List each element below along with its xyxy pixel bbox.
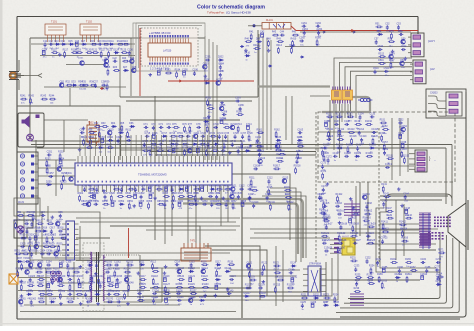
svg-text:R1510: R1510 <box>400 149 408 151</box>
wire IF bus 4 <box>216 45 218 160</box>
svg-text:C206: C206 <box>218 71 224 73</box>
svg-text:R243: R243 <box>41 96 47 98</box>
resistor R911 <box>47 223 54 225</box>
wire lower mid drop2 <box>282 250 284 302</box>
capacitor C186 <box>398 269 401 274</box>
svg-text:C13b25: C13b25 <box>322 240 331 242</box>
svg-text:C201: C201 <box>205 57 211 59</box>
resistor R516 <box>378 63 385 65</box>
ground <box>126 302 130 306</box>
svg-text:C845: C845 <box>236 193 242 195</box>
svg-text:R837: R837 <box>178 193 184 195</box>
svg-text:C74: C74 <box>166 124 171 126</box>
resistor R13b19 <box>352 225 354 232</box>
svg-text:R1511: R1511 <box>386 155 393 157</box>
diode D814 <box>178 188 184 190</box>
delay line DL101 <box>248 20 291 29</box>
svg-text:C1615: C1615 <box>295 158 303 160</box>
resistor R118 <box>228 264 235 266</box>
resistor R1322 <box>336 147 343 149</box>
svg-text:T471: T471 <box>190 240 196 243</box>
svg-text:}AV: }AV <box>430 67 435 71</box>
svg-text:C1140: C1140 <box>227 290 234 292</box>
capacitor C520 <box>384 70 389 73</box>
capacitor C226 <box>311 303 314 307</box>
svg-text:C135: C135 <box>370 113 376 115</box>
svg-text:R1141: R1141 <box>137 297 144 299</box>
svg-text:C750: C750 <box>196 147 202 149</box>
resistor R1125 <box>139 286 146 288</box>
capacitor C1212 <box>291 278 294 282</box>
resistor R1115 <box>216 270 218 277</box>
resistor R743 <box>142 150 149 152</box>
svg-text:R839: R839 <box>193 193 199 195</box>
svg-text:R1015: R1015 <box>35 269 43 271</box>
svg-text:C1321: C1321 <box>323 145 331 147</box>
wire af rail <box>76 237 110 239</box>
svg-text:R133: R133 <box>347 113 353 115</box>
wire ss bus2 <box>146 229 236 231</box>
svg-text:C1030: C1030 <box>67 276 75 278</box>
resistor R48 <box>267 40 269 47</box>
capacitor C1068 <box>86 300 91 303</box>
svg-text:R853: R853 <box>127 201 133 203</box>
wire east west <box>355 186 357 236</box>
resistor R412 <box>253 48 260 50</box>
resistor R236 <box>367 277 374 279</box>
ground <box>207 115 211 119</box>
capacitor C13b1 <box>318 195 321 200</box>
resistor R243 <box>41 98 48 100</box>
capacitor C56 <box>399 33 404 36</box>
capacitor C724 <box>218 135 221 140</box>
capacitor C914 <box>25 229 28 234</box>
capacitor C1034 <box>107 278 110 282</box>
section dashed box SMPS <box>83 243 104 311</box>
resistor R252 <box>59 153 61 160</box>
svg-text:R189: R189 <box>377 274 383 276</box>
capacitor C725 <box>224 135 227 140</box>
svg-text:R1031: R1031 <box>77 276 85 278</box>
wire rgb v1 <box>391 118 393 180</box>
svg-text:C841: C841 <box>208 193 214 195</box>
diode D64 <box>111 125 117 127</box>
svg-text:D756: D756 <box>245 147 251 149</box>
wire right mid drop2 <box>367 182 369 240</box>
svg-text:C510: C510 <box>378 46 384 48</box>
capacitor C251 <box>47 153 52 156</box>
svg-text:C37: C37 <box>93 82 98 84</box>
wire supply rail <box>110 226 200 260</box>
svg-text:R13b22: R13b22 <box>337 233 346 235</box>
svg-text:Q514: Q514 <box>389 53 395 55</box>
svg-text:D1050: D1050 <box>26 291 34 293</box>
capacitor C196 <box>193 71 196 76</box>
svg-text:Q103: Q103 <box>38 262 44 264</box>
resistor R1318 <box>351 138 353 145</box>
transistor Q102 <box>104 63 108 67</box>
svg-text:C96: C96 <box>58 212 63 214</box>
resistor R1012 <box>126 264 133 266</box>
svg-text:C11: C11 <box>43 41 48 43</box>
wire delay bus 4 <box>270 40 272 150</box>
resistor R850 <box>102 203 109 205</box>
svg-text:R235: R235 <box>355 274 361 276</box>
resistor R614 <box>90 139 92 146</box>
capacitor C134 <box>359 115 362 120</box>
svg-text:C1026: C1026 <box>28 276 36 278</box>
resistor R612 <box>127 131 129 138</box>
op-amp U1 jungle IC TDA8361 <box>75 156 232 192</box>
svg-text:R271: R271 <box>438 250 444 252</box>
svg-text:R43: R43 <box>272 32 277 34</box>
wire kb bus 2 <box>17 245 60 247</box>
resistor R125 <box>248 271 250 278</box>
svg-text:R48: R48 <box>266 38 271 40</box>
transistor Q1112 <box>177 269 181 273</box>
capacitor C13b8 <box>365 205 368 210</box>
svg-text:R1617: R1617 <box>273 166 281 168</box>
resistor R910 <box>36 223 43 225</box>
svg-text:C71: C71 <box>143 124 148 126</box>
svg-text:R1811: R1811 <box>405 274 412 276</box>
ground <box>79 302 83 306</box>
svg-text:R1512: R1512 <box>402 155 410 157</box>
resistor R1612 <box>297 152 299 159</box>
resistor R13b2 <box>337 195 339 202</box>
capacitor C88 <box>134 187 137 192</box>
ground <box>204 74 208 78</box>
wire flyback top <box>380 195 448 197</box>
U101 top pin labels <box>149 35 189 37</box>
resistor R143 <box>383 196 390 198</box>
resistor R51 <box>375 26 382 28</box>
svg-text:R1412: R1412 <box>399 222 407 224</box>
capacitor C512 <box>401 48 406 51</box>
resistor R139 <box>355 123 362 125</box>
svg-text:D1064: D1064 <box>49 298 57 300</box>
capacitor C1140 <box>227 292 232 295</box>
capacitor C67 <box>80 131 85 134</box>
section box video output <box>318 112 455 182</box>
section box audio stage <box>42 212 100 258</box>
resistor R110 <box>103 43 110 45</box>
resistor R211 <box>250 179 252 186</box>
wire top bus drop to CN201 <box>417 17 419 35</box>
diode D611 <box>118 132 124 134</box>
wire chroma bus 1 <box>150 151 316 153</box>
resistor R46 <box>245 41 252 43</box>
resistor R622 <box>107 147 114 149</box>
svg-text:C822: C822 <box>239 186 245 188</box>
svg-text:C860: C860 <box>177 201 183 203</box>
ground <box>352 206 356 210</box>
capacitor C1610 <box>258 153 261 158</box>
resistor R928 <box>43 246 50 248</box>
svg-text:D15: D15 <box>68 41 73 43</box>
svg-text:D13: D13 <box>54 41 59 43</box>
svg-text:D852: D852 <box>119 201 125 203</box>
resistor R36 <box>90 84 97 86</box>
capacitor C715 <box>145 135 150 138</box>
ground <box>262 280 266 284</box>
svg-text:R1128: R1128 <box>176 284 183 286</box>
capacitor C737 <box>207 142 210 147</box>
resistor R931 <box>15 253 22 255</box>
capacitor C842 <box>215 195 218 200</box>
svg-text:C99: C99 <box>30 220 35 222</box>
capacitor C923 <box>51 236 54 241</box>
resistor R825 <box>88 196 95 198</box>
wire mid h238 <box>250 237 330 239</box>
ground <box>20 294 24 298</box>
connector J1 AV jack panel <box>17 152 38 204</box>
resistor R730 <box>150 143 157 145</box>
svg-text:R1618: R1618 <box>294 166 302 168</box>
capacitor C1119 <box>163 278 166 282</box>
red arrow agc <box>100 88 104 90</box>
svg-text:R1042: R1042 <box>68 282 76 284</box>
wire IF bus 3 <box>212 42 214 160</box>
capacitor C2110 <box>252 204 255 209</box>
wire right frame bus <box>340 92 466 317</box>
svg-text:R91: R91 <box>17 212 22 214</box>
resistor R274 <box>437 276 444 278</box>
svg-text:R728: R728 <box>247 133 253 135</box>
wire chroma line <box>285 46 411 48</box>
wire kb bus 3 <box>20 237 64 239</box>
svg-text:C1121: C1121 <box>188 276 195 278</box>
diode D165 <box>276 139 282 141</box>
wire IC top pin stubs <box>80 135 228 156</box>
resistor R215 <box>268 188 270 195</box>
svg-text:C265: C265 <box>299 38 305 40</box>
capacitor C137 <box>334 123 339 126</box>
transistor Q821 <box>231 187 235 191</box>
svg-text:C218: C218 <box>265 194 271 196</box>
wire RGB line 3 <box>345 67 412 118</box>
svg-text:R125: R125 <box>121 49 127 51</box>
svg-text:R281: R281 <box>205 98 211 100</box>
ground <box>249 144 253 148</box>
section dotted audio <box>60 254 140 256</box>
wire bridge out <box>61 282 90 284</box>
svg-text:R1027: R1027 <box>37 276 45 278</box>
svg-text:R828: R828 <box>109 193 115 195</box>
capacitor C1134 <box>152 292 157 295</box>
svg-text:C217: C217 <box>248 194 254 196</box>
capacitor C618 <box>126 139 131 142</box>
svg-text:C519: C519 <box>373 68 379 70</box>
resistor R1135 <box>163 293 170 295</box>
svg-text:R711: R711 <box>223 124 229 126</box>
svg-text:C181: C181 <box>375 259 381 261</box>
resistor R68 <box>88 132 95 134</box>
resistor R859 <box>172 202 174 209</box>
resistor R178 <box>323 202 325 209</box>
capacitor C1143 <box>165 298 168 302</box>
wire lower mid drop <box>275 246 277 306</box>
svg-text:C272: C272 <box>436 259 442 261</box>
resistor R224 <box>334 296 336 303</box>
svg-text:C1142: C1142 <box>152 297 159 299</box>
transistor Q101 <box>80 61 84 65</box>
ground <box>338 221 342 225</box>
transistor Q208 <box>216 81 220 85</box>
red wire video signal <box>296 30 418 32</box>
svg-text:C1144: C1144 <box>177 297 184 299</box>
svg-text:R224: R224 <box>333 295 339 297</box>
svg-text:Q1061: Q1061 <box>19 298 27 300</box>
wire right mid drop <box>359 182 361 236</box>
transformer T901 SMPS <box>91 252 105 302</box>
svg-text:R211: R211 <box>249 178 255 180</box>
svg-text:R219: R219 <box>285 194 291 196</box>
wire lower nest 4 <box>205 246 260 300</box>
svg-text:C1327: C1327 <box>333 153 341 155</box>
ground <box>164 265 168 269</box>
svg-text:R13b19: R13b19 <box>351 223 360 225</box>
svg-text:R18: R18 <box>90 41 95 43</box>
capacitor C19 <box>98 43 103 46</box>
antenna socket ANT1 <box>9 60 42 90</box>
diode D117 <box>216 264 222 266</box>
svg-text:C173: C173 <box>321 163 327 165</box>
capacitor stack C905 <box>350 294 364 305</box>
svg-text:R859: R859 <box>171 201 177 203</box>
svg-text:R26: R26 <box>113 67 118 69</box>
resistor R284 <box>207 108 214 110</box>
svg-text:C251: C251 <box>47 152 53 154</box>
capacitor C917 <box>50 229 53 234</box>
svg-text:R39: R39 <box>105 82 110 84</box>
svg-text:R931: R931 <box>14 250 20 252</box>
capacitor C810 <box>148 187 151 191</box>
capacitor C1619 <box>257 149 262 152</box>
resistor R1052 <box>46 293 53 295</box>
diode D732 <box>169 143 175 145</box>
svg-text:R1813: R1813 <box>380 280 388 282</box>
svg-text:R118: R118 <box>228 261 234 263</box>
svg-text:C145: C145 <box>382 200 388 202</box>
svg-text:C13b6: C13b6 <box>335 203 343 205</box>
svg-text:C109: C109 <box>94 262 100 264</box>
svg-text:Q848: Q848 <box>87 201 93 203</box>
resistor R847 <box>81 203 88 205</box>
resistor R281 <box>207 99 209 106</box>
capacitor C163 <box>298 131 303 134</box>
wire delay bus 3 <box>266 38 268 150</box>
capacitor C53 <box>397 25 400 30</box>
diode D1123 <box>215 278 221 280</box>
svg-text:R1066: R1066 <box>67 298 75 300</box>
wire top right link <box>310 95 330 97</box>
capacitor C148 <box>405 209 408 213</box>
resistor R92 <box>27 215 34 217</box>
svg-text:R174: R174 <box>321 171 327 173</box>
svg-text:C933: C933 <box>30 250 36 252</box>
diode D47 <box>256 40 262 42</box>
speaker SP1 and headphone jack <box>18 113 44 147</box>
resistor R85 <box>113 188 120 190</box>
svg-text:C1710: C1710 <box>323 216 331 218</box>
op-amp U101 IF IC <box>148 39 191 62</box>
capacitor C731 <box>159 143 164 146</box>
resistor R828 <box>110 195 112 202</box>
section dashed box U101 <box>141 28 198 66</box>
svg-text:R1070: R1070 <box>106 298 114 300</box>
resistor R219 <box>285 196 292 198</box>
svg-text:R1060: R1060 <box>123 291 131 293</box>
svg-text:R231: R231 <box>350 258 356 260</box>
svg-text:C136: C136 <box>324 121 330 123</box>
svg-text:R1023: R1023 <box>113 269 121 271</box>
capacitor C1035 <box>116 278 119 283</box>
op-amp U301 chroma amp (orange) <box>332 87 353 104</box>
ground <box>79 265 83 269</box>
capacitor C177 <box>319 196 322 201</box>
svg-text:D207: D207 <box>204 80 210 82</box>
resistor R13b20 <box>368 226 375 228</box>
capacitor C13b15 <box>349 219 352 223</box>
wire CRT return loop 3 <box>340 238 453 308</box>
diode D1329 <box>354 155 360 157</box>
svg-text:R87: R87 <box>127 186 132 188</box>
resistor R187 <box>410 269 417 271</box>
svg-text:R1129: R1129 <box>188 284 195 286</box>
svg-text:DL101: DL101 <box>266 20 273 22</box>
diode D1050 <box>27 293 33 295</box>
wire ss bus <box>150 225 240 227</box>
ground <box>19 280 23 284</box>
resistor R1031 <box>78 278 80 285</box>
red wire IF section left <box>139 28 141 96</box>
svg-text:C283: C283 <box>235 98 241 100</box>
svg-text:R1614: R1614 <box>276 158 284 160</box>
svg-text:C188: C188 <box>425 267 431 269</box>
svg-text:R1127: R1127 <box>163 284 170 286</box>
ground <box>200 196 204 200</box>
svg-text:R77: R77 <box>188 124 193 126</box>
capacitor C201 <box>205 59 210 62</box>
red wire standby <box>128 228 130 258</box>
svg-text:C1020: C1020 <box>85 269 93 271</box>
svg-text:R45: R45 <box>292 32 297 34</box>
resistor R926 <box>29 245 31 252</box>
wire if box v1 <box>135 23 137 70</box>
svg-text:R178: R178 <box>322 201 328 203</box>
capacitor C1032 <box>90 278 93 282</box>
resistor R838 <box>187 196 194 198</box>
resistor R1028 <box>51 278 53 285</box>
resistor R75 <box>172 126 179 128</box>
resistor R234 <box>370 267 372 274</box>
svg-text:D108: D108 <box>87 262 93 264</box>
svg-text:R856: R856 <box>147 201 153 203</box>
svg-text:R266: R266 <box>315 38 321 40</box>
resistor R43 <box>272 34 279 36</box>
diode D166 <box>297 139 303 141</box>
svg-text:Q208: Q208 <box>216 80 222 82</box>
svg-text:D17: D17 <box>81 41 86 43</box>
capacitor C716 <box>152 134 155 138</box>
svg-text:R910: R910 <box>36 220 42 222</box>
resistor R751 <box>206 149 208 156</box>
capacitor C109 <box>95 263 98 268</box>
svg-text:C740: C740 <box>230 141 236 143</box>
svg-text:R32: R32 <box>65 82 70 84</box>
capacitor C1026 <box>29 278 32 283</box>
